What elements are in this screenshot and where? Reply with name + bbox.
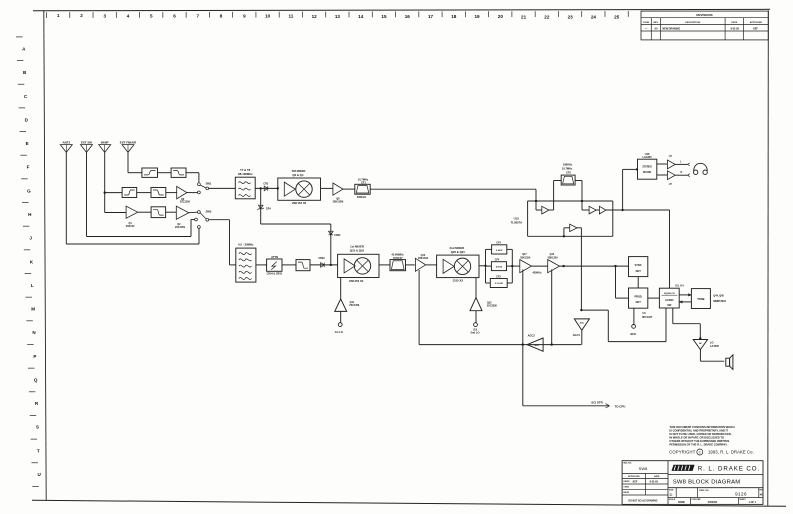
svg-text:19: 19 (474, 14, 480, 19)
svg-text:15: 15 (381, 14, 387, 19)
svg-text:CR06: CR06 (318, 257, 325, 260)
svg-text:DO NOT SCALE DRAWING: DO NOT SCALE DRAWING (628, 500, 657, 503)
wire SW2 to BPF (209, 220, 236, 265)
mixer 1st MIXER Q15 & Q16 (338, 244, 379, 282)
antenna ANT2 (60, 141, 72, 153)
wire CR4 to CR30 (261, 224, 331, 265)
svg-text:DWG. NO.: DWG. NO. (699, 490, 709, 492)
wire (675, 161, 690, 166)
svg-text:Q15 & Q16: Q15 & Q16 (350, 249, 365, 253)
svg-text:SW8: SW8 (639, 466, 648, 471)
svg-text:P: P (33, 354, 36, 359)
svg-text:CR4: CR4 (266, 207, 271, 210)
bandpass filter 0.5-30MHz (236, 242, 256, 282)
wire (321, 187, 333, 189)
border frame left line (44, 11, 46, 501)
svg-text:REVISIONS: REVISIONS (696, 13, 712, 17)
filter low-pass (296, 260, 310, 271)
svg-text:17: 17 (428, 14, 434, 19)
svg-text:2SC1359: 2SC1359 (180, 201, 191, 204)
node FM junction (260, 187, 262, 189)
svg-text:AUDIO: AUDIO (665, 298, 673, 302)
svg-text:OTHERS WITHOUT THE EXPRESSED W: OTHERS WITHOUT THE EXPRESSED WRITTEN (669, 439, 729, 443)
svg-text:SCI STR: SCI STR (591, 401, 603, 405)
wire EXT FM/AIR to filter (128, 152, 142, 172)
wire squelch-tone (679, 294, 691, 296)
filter FL-D (low-pass) (151, 188, 166, 198)
svg-text:2SC1359: 2SC1359 (175, 226, 186, 229)
svg-text:SW8 BLOCK DIAGRAM: SW8 BLOCK DIAGRAM (673, 480, 741, 486)
block PROD DET U6 (629, 288, 653, 319)
op-amp U13D feedback (564, 224, 582, 310)
svg-text:R. L. DRAKE CO.: R. L. DRAKE CO. (698, 466, 760, 473)
svg-text:6: 6 (173, 13, 176, 18)
svg-text:18: 18 (451, 14, 457, 19)
svg-text:2nd LO: 2nd LO (471, 331, 480, 335)
node U13 fb (563, 235, 565, 237)
confidentiality note (669, 425, 734, 447)
svg-text:16: 16 (405, 14, 411, 19)
svg-text:2SK152 X2: 2SK152 X2 (292, 201, 307, 205)
svg-text:3SK133A: 3SK133A (418, 257, 429, 260)
svg-text:SYNC: SYNC (635, 263, 642, 267)
revisions table (641, 11, 768, 40)
svg-text:J310 X2: J310 X2 (452, 279, 463, 283)
wire squelch to LO amp (673, 308, 701, 340)
svg-text:J: J (29, 236, 32, 241)
node CF bank out (511, 265, 513, 267)
amplifier AGC2 (527, 334, 543, 352)
antenna WHIP (99, 141, 111, 153)
svg-text:CF6/CF7: CF6/CF7 (393, 257, 403, 260)
svg-text:E: E (26, 141, 29, 146)
diode CR3 (263, 182, 268, 190)
svg-text:KEF: KEF (753, 27, 758, 30)
amplifier Q22 2SC3358 (2nd LO) (470, 278, 497, 335)
border frame bottom line (32, 500, 786, 506)
filter bank CF5/CF4/CF3 (486, 241, 513, 287)
border frame top line (33, 9, 770, 11)
svg-text:3SK133A: 3SK133A (548, 257, 559, 260)
wire audio to squelch (623, 210, 670, 288)
node CF2 out (581, 200, 583, 202)
wire PROD to SQUELCH (648, 297, 660, 299)
svg-text:LA4555: LA4555 (710, 345, 720, 348)
svg-text:NEW DRAWING: NEW DRAWING (662, 27, 680, 30)
op-amp U7 (R) (667, 171, 675, 186)
amplifier Q14 3SK133A (548, 253, 560, 273)
antenna EXT SW (81, 141, 93, 153)
node (277, 187, 279, 189)
title block (622, 461, 764, 505)
wire WHIP down (104, 152, 106, 212)
svg-text:23: 23 (568, 14, 574, 19)
svg-text:SW1: SW1 (206, 181, 212, 185)
wire (657, 163, 668, 165)
wire to U16 (623, 169, 638, 210)
wire T7T8 out (255, 187, 278, 189)
svg-text:CR3: CR3 (263, 182, 268, 185)
attenuator ATTN CR04 & CR05 (267, 255, 283, 276)
wire SW1 to T7T8 (209, 187, 236, 189)
node (562, 265, 564, 267)
svg-text:TONE: TONE (697, 297, 705, 301)
svg-text:8-31-93: 8-31-93 (731, 27, 740, 30)
svg-text:FOR REF.: FOR REF. (692, 499, 702, 501)
svg-text:10: 10 (265, 14, 271, 19)
svg-text:UPC1037: UPC1037 (642, 316, 653, 319)
svg-text:ZONE: ZONE (643, 22, 650, 24)
wire (675, 171, 690, 177)
svg-text:CF4: CF4 (495, 258, 500, 261)
svg-text:455KHz: 455KHz (532, 271, 542, 274)
svg-text:AGC: AGC (580, 321, 585, 324)
svg-text:D: D (670, 492, 673, 497)
diode CR06 (318, 257, 325, 267)
svg-text:REV.: REV. (653, 22, 658, 24)
IC U3 U4 SQUELCH AUDIO SW (659, 284, 684, 309)
wire Q17 AGC (522, 270, 524, 345)
svg-text:Q3 & Q4: Q3 & Q4 (292, 173, 303, 177)
speaker (726, 355, 733, 370)
wire (166, 192, 177, 194)
svg-text:12: 12 (312, 14, 318, 19)
wire IF out (560, 265, 629, 267)
amplifier Q6 2SC1359 (177, 186, 191, 203)
svg-text:COPYRIGHT: COPYRIGHT (669, 450, 696, 455)
svg-text:AGC2: AGC2 (528, 334, 536, 338)
svg-text:Q: Q (34, 377, 38, 382)
svg-text:NONE: NONE (678, 501, 685, 504)
svg-text:SW: SW (667, 303, 672, 307)
svg-text:3: 3 (103, 13, 106, 18)
svg-text:CHKD: CHKD (624, 487, 630, 489)
svg-text:ANT2: ANT2 (63, 141, 71, 145)
svg-text:R: R (681, 171, 683, 174)
svg-text:25: 25 (614, 14, 620, 19)
svg-text:TO CPU: TO CPU (615, 404, 626, 408)
top ruler numbers 1-25 (57, 13, 620, 19)
svg-text:APPROVED: APPROVED (628, 475, 640, 478)
wire junction to filter (105, 192, 122, 194)
node WHIP junction (104, 191, 106, 193)
svg-text:DET: DET (636, 300, 642, 304)
svg-text:20: 20 (498, 14, 504, 19)
svg-text:ENGR: ENGR (624, 492, 630, 494)
svg-text:9126: 9126 (735, 492, 747, 497)
top ruler ticks (47, 11, 629, 18)
svg-text:M: M (31, 307, 35, 312)
wire tone-squelch (679, 301, 691, 303)
filter FL-C (high-pass) (122, 188, 137, 198)
filter FL-A (FM/AIR high-pass) (142, 168, 158, 177)
amplifier Q17 3SK133A (520, 253, 532, 273)
svg-text:1 OF 1: 1 OF 1 (749, 501, 757, 504)
ceramic filter CF2 10.7MHz 180KHz (561, 162, 575, 185)
svg-text:21: 21 (521, 14, 527, 19)
wire (379, 264, 390, 266)
svg-text:5: 5 (150, 13, 153, 18)
wire (657, 174, 668, 176)
svg-text:2SC1359: 2SC1359 (349, 304, 360, 307)
wire (166, 211, 177, 213)
svg-text:CF2: CF2 (566, 171, 571, 175)
svg-text:MDL NO.: MDL NO. (624, 463, 633, 465)
svg-text:13: 13 (335, 14, 341, 19)
svg-text:G: G (27, 188, 31, 193)
wire ANT2 to SW2 contact (66, 152, 199, 244)
amplifier Q8 2SK132M (333, 183, 344, 204)
op-amp section U13 TL06279 loop (528, 201, 613, 236)
svg-text:LA4325: LA4325 (642, 155, 652, 159)
wire SCI STR to CPU (523, 345, 626, 409)
svg-text:2: 2 (80, 13, 83, 18)
svg-text:DESCRIPTION: DESCRIPTION (685, 22, 700, 24)
wire (406, 264, 415, 266)
node (614, 265, 616, 267)
svg-text:PERMISSION OF THE R. L. DRAKE: PERMISSION OF THE R. L. DRAKE COMPANY. (669, 443, 727, 447)
svg-text:LO: LO (710, 341, 714, 344)
svg-text:PHONE: PHONE (643, 172, 652, 174)
svg-text:1st LO: 1st LO (335, 330, 343, 334)
svg-text:IS NOT TO BE USED, COPIED OR R: IS NOT TO BE USED, COPIED OR REPRODUCED, (669, 432, 731, 436)
svg-text:14: 14 (358, 14, 364, 19)
wire CF2 out (575, 181, 582, 202)
svg-text:88-138MHz: 88-138MHz (238, 172, 253, 176)
node U16 input (636, 168, 638, 170)
svg-text:THIS DOCUMENT CONTAINS INFORMA: THIS DOCUMENT CONTAINS INFORMATION WHICH (669, 425, 734, 429)
wire to speaker (700, 350, 724, 362)
svg-text:DATE: DATE (731, 21, 737, 24)
wire to SW1 (186, 173, 199, 183)
svg-text:6 KHZ: 6 KHZ (496, 250, 503, 252)
svg-text:0000000: 0000000 (708, 501, 718, 504)
svg-text:1993, R. L. DRAKE Co.: 1993, R. L. DRAKE Co. (708, 450, 754, 455)
bandpass filter T7 & T8 88-138MHz (235, 168, 255, 199)
svg-text:SHEET: SHEET (739, 499, 746, 501)
svg-text:SW2: SW2 (206, 209, 212, 213)
filter FL-B (FM/AIR low-pass) (171, 168, 186, 177)
label U13 (511, 217, 523, 225)
svg-text:2.3 KHZ: 2.3 KHZ (495, 283, 504, 285)
filter FL-E (low-pass) (151, 207, 166, 218)
svg-text:U3, U4: U3, U4 (675, 284, 684, 288)
svg-text:DET: DET (636, 269, 642, 273)
svg-text:CR30: CR30 (334, 234, 341, 237)
svg-text:S: S (36, 425, 39, 430)
svg-text:11: 11 (288, 14, 293, 19)
node CF bank in (484, 265, 486, 267)
svg-text:WHIP: WHIP (101, 141, 109, 145)
svg-text:CR04 & CR05: CR04 & CR05 (267, 273, 283, 276)
wire (137, 192, 151, 194)
svg-text:2SK132M: 2SK132M (333, 201, 344, 204)
switch SW1 (198, 181, 212, 193)
wire Q14 AGC (551, 270, 553, 345)
wire (479, 265, 486, 267)
svg-text:KEF: KEF (633, 481, 638, 484)
svg-text:CF1: CF1 (361, 181, 366, 185)
node U13 in (535, 200, 537, 202)
svg-text:4 KHZ: 4 KHZ (496, 265, 503, 268)
op-amp U13A (536, 201, 549, 214)
svg-text:7: 7 (197, 13, 200, 18)
copyright line (669, 449, 754, 455)
label Q44 Q45 MMBT3904 (713, 294, 726, 303)
svg-text:SCALE: SCALE (669, 498, 676, 501)
wire SYNC to PROD (637, 277, 639, 288)
svg-text:#0: #0 (760, 492, 764, 496)
wire (512, 265, 520, 267)
amplifier AGC1 (573, 319, 590, 345)
svg-text:230KHz: 230KHz (357, 195, 367, 199)
node (551, 343, 553, 345)
amplifier LO LA4555 (693, 340, 719, 350)
wire (256, 264, 267, 266)
svg-text:2SC3358: 2SC3358 (487, 304, 498, 307)
wire (158, 172, 172, 174)
mixer FM MIXER Q3 & Q4 (278, 169, 321, 205)
svg-text:AGC1: AGC1 (573, 333, 581, 337)
svg-text:10.7MHz: 10.7MHz (562, 166, 573, 170)
mixer 2nd MIXER Q20 & Q21 (437, 246, 479, 283)
block TONE (691, 289, 710, 309)
svg-text:F: F (27, 165, 30, 170)
svg-text:EXT SW: EXT SW (81, 141, 92, 145)
svg-text:DRWN: DRWN (624, 481, 630, 483)
switch SW2 (195, 209, 212, 228)
svg-text:CF5: CF5 (496, 241, 501, 244)
svg-text:Q20 & Q21: Q20 & Q21 (451, 250, 466, 254)
svg-text:T: T (37, 448, 40, 453)
node (580, 309, 582, 311)
svg-text:24: 24 (591, 14, 597, 19)
wire (532, 265, 548, 267)
wire Q2 to SW2 (189, 211, 198, 214)
node (330, 264, 332, 266)
wire to PROD DET (616, 266, 629, 298)
svg-text:1: 1 (57, 13, 60, 18)
wire AGC loop to squelch (581, 308, 666, 342)
svg-text:SQUELCH: SQUELCH (664, 293, 675, 295)
svg-text:3SK133A: 3SK133A (520, 257, 531, 260)
svg-text:MMBT3904: MMBT3904 (713, 300, 726, 303)
svg-text:8-31-93: 8-31-93 (650, 481, 659, 484)
wire AGC line (419, 344, 581, 346)
diode CR30 (329, 231, 342, 237)
amplifier Q2 2SC1359 (175, 206, 189, 229)
svg-text:L: L (31, 283, 34, 288)
svg-text:Q44, Q45: Q44, Q45 (713, 294, 724, 297)
wire Q6 to SW1 (187, 192, 198, 194)
IC U16 LA4325 (638, 152, 657, 179)
wire (282, 264, 296, 266)
border frame right line (767, 10, 770, 505)
diode CR4 shunt (258, 188, 272, 224)
svg-text:AGC: AGC (535, 344, 540, 347)
op-amp U13B (582, 201, 596, 214)
wire (426, 264, 437, 266)
svg-text:IS CONFIDENTIAL AND PROPRIETAR: IS CONFIDENTIAL AND PROPRIETARY, AND IT (669, 428, 728, 432)
svg-text:8: 8 (220, 14, 223, 19)
svg-text:0.5 - 30MHz: 0.5 - 30MHz (238, 242, 254, 246)
node (699, 337, 701, 339)
svg-text:9: 9 (243, 14, 246, 19)
svg-text:22: 22 (544, 14, 550, 19)
left ruler letters A-U (22, 47, 41, 478)
wire AGC to Q10 (418, 270, 420, 345)
svg-text:PROD: PROD (634, 294, 642, 298)
wire (138, 211, 151, 213)
amplifier Q10 3SK133A (415, 254, 428, 271)
op-amp U13C (596, 206, 622, 214)
ceramic filter CF6/CF7 45.048MHz (390, 254, 406, 271)
amplifier Q1 2SK152 (126, 206, 138, 218)
wire (343, 188, 355, 190)
svg-text:DATE: DATE (654, 475, 660, 478)
left ruler ticks (16, 37, 39, 487)
antenna EXT FM/AIR (120, 141, 137, 153)
svg-text:BFO: BFO (630, 332, 635, 336)
node audio junction (621, 209, 623, 211)
ceramic filter CF1 10.7MHz (355, 177, 370, 199)
amplifier Q11 2SC1359 (1st LO) (335, 278, 360, 335)
svg-text:2SK152 X2: 2SK152 X2 (349, 279, 364, 283)
svg-text:CF3: CF3 (496, 275, 501, 278)
svg-text:APPROVED: APPROVED (750, 21, 763, 24)
node (522, 343, 524, 345)
svg-text:ATTN: ATTN (271, 255, 278, 259)
svg-text:STEREO: STEREO (642, 166, 652, 168)
svg-text:TL06279: TL06279 (511, 220, 523, 224)
svg-text:180KHz: 180KHz (563, 162, 573, 166)
wire EXT SW to SW2 contact (87, 152, 195, 236)
block SYNC DET (629, 257, 648, 277)
svg-text:4: 4 (127, 13, 130, 18)
wire CF1 to U13 (370, 189, 536, 201)
svg-text:IN WHOLE OR IN PART, OR DISCLO: IN WHOLE OR IN PART, OR DISCLOSED TO (669, 436, 724, 440)
wire U13A to CF2 (549, 181, 561, 211)
wire WHIP to Q1 (105, 212, 126, 214)
svg-text:2SK152: 2SK152 (126, 225, 135, 228)
headphones jack (694, 163, 708, 174)
op-amp U7 (L) (667, 155, 675, 169)
wire (310, 264, 338, 266)
svg-text:EXT FM/AIR: EXT FM/AIR (120, 141, 137, 145)
BFO (630, 308, 635, 336)
